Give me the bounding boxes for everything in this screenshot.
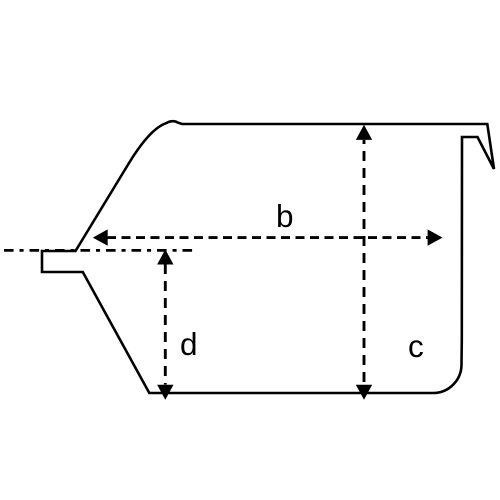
dimension b right arrowhead: [428, 229, 443, 245]
dimension b line (dashed): [107, 236, 428, 239]
container profile outline: [42, 121, 494, 393]
svg-text:d: d: [180, 326, 198, 362]
dimension c top arrowhead: [356, 125, 372, 140]
dimension d top arrowhead: [157, 249, 173, 264]
dimension b left arrowhead: [93, 229, 108, 245]
svg-text:c: c: [408, 328, 424, 364]
dimension c line (vertical dashed): [363, 140, 366, 385]
dimension d bottom arrowhead: [157, 385, 173, 400]
centerline (dash-dot): [4, 249, 192, 252]
svg-text:b: b: [276, 198, 294, 234]
dimension d line (vertical dashed): [164, 264, 167, 385]
dimension c bottom arrowhead: [356, 385, 372, 400]
